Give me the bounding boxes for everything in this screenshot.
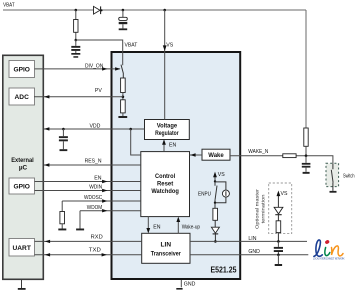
svg-text:Optional master: Optional master <box>255 189 261 229</box>
node top rail C2 <box>122 9 125 12</box>
resistor R4 <box>304 128 308 156</box>
wire PV <box>34 88 123 98</box>
arrow VS termination <box>277 191 288 208</box>
svg-text:WDOSC: WDOSC <box>84 195 102 201</box>
wire GND <box>190 249 308 255</box>
node top rail R1 <box>75 9 78 12</box>
wire node to VBAT pin <box>76 40 123 65</box>
svg-text:WDIN: WDIN <box>89 185 102 191</box>
node C5 GND <box>277 254 280 257</box>
node PV divider <box>122 93 125 100</box>
ground below C2 <box>119 28 128 30</box>
IC E521.25 body <box>112 52 241 279</box>
optional master termination box <box>255 183 292 234</box>
wire VBAT top rail <box>3 9 306 11</box>
svg-text:Watchdog: Watchdog <box>151 188 179 195</box>
wire WAKE_N <box>230 149 333 164</box>
wire Wake to watchdog <box>190 153 203 156</box>
switch ENPU <box>198 181 217 202</box>
LIN transceiver block <box>142 233 190 263</box>
wire WDIN <box>35 185 141 193</box>
LIN logo <box>313 239 345 260</box>
ground below C3 <box>60 149 68 151</box>
capacitor C1 <box>71 40 80 53</box>
svg-text:TXD: TXD <box>89 248 101 254</box>
svg-text:E521.25: E521.25 <box>211 266 238 275</box>
wire VDD <box>44 124 145 131</box>
resistor R1 <box>74 10 78 40</box>
svg-text:WDOM: WDOM <box>87 205 102 211</box>
node diode to LIN <box>214 240 217 243</box>
ground below WDOM <box>76 211 84 231</box>
wire EN regulator to watchdog <box>162 139 176 151</box>
svg-text:LOCAL INTERCONNECT NETWORK: LOCAL INTERCONNECT NETWORK <box>313 257 345 260</box>
external microcontroller block <box>3 55 44 279</box>
wire TXD <box>35 248 142 257</box>
svg-text:External: External <box>11 157 34 164</box>
wire DIV_ON <box>35 63 121 70</box>
ground below microcontroller <box>18 280 26 290</box>
svg-text:LIN: LIN <box>248 236 256 242</box>
svg-text:ENPU: ENPU <box>198 191 211 197</box>
capacitor C3 <box>59 129 68 149</box>
current source parallel branch <box>215 182 229 203</box>
wire RES_N <box>44 158 141 166</box>
svg-text:EN: EN <box>94 175 101 181</box>
svg-text:VDD: VDD <box>89 124 100 130</box>
GPIO box top <box>9 61 35 78</box>
resistor R8 termination <box>276 221 281 242</box>
svg-text:RES_N: RES_N <box>85 158 102 164</box>
wire EN watchdog to transceiver <box>146 217 160 234</box>
svg-text:GND: GND <box>184 281 196 287</box>
wire WDOSC <box>62 195 141 203</box>
resistor R7 <box>213 203 218 228</box>
resistor R5 WDOSC <box>60 201 65 229</box>
ground below IC <box>176 288 182 290</box>
wire VS vertical <box>164 10 166 120</box>
svg-text:Wake: Wake <box>208 152 224 159</box>
ADC box <box>9 88 35 105</box>
node termination to LIN <box>277 240 280 243</box>
resistor R3 divider bottom <box>121 100 126 116</box>
wake block <box>202 149 230 160</box>
svg-text:EN: EN <box>169 143 176 149</box>
svg-text:VBAT: VBAT <box>3 3 15 9</box>
ground below switch <box>330 191 337 193</box>
svg-text:Switch: Switch <box>343 173 355 179</box>
node WAKE_N filter <box>305 154 308 157</box>
wire RXD <box>35 235 142 244</box>
svg-text:Regulator: Regulator <box>155 130 179 137</box>
node VDD branch to watchdog <box>129 128 132 131</box>
node ENPU bottom <box>214 202 216 204</box>
svg-text:Transceiver: Transceiver <box>151 250 181 257</box>
diode D1 <box>94 6 103 14</box>
arrow VS into IC <box>163 45 167 51</box>
diode D3 termination <box>274 207 283 221</box>
voltage regulator block <box>145 120 190 140</box>
svg-text:WAKE_N: WAKE_N <box>248 149 268 155</box>
switch symbol divider inside IC <box>121 65 123 78</box>
resistor R2 divider top <box>121 78 126 93</box>
ground below R5 <box>58 229 66 231</box>
svg-text:Voltage: Voltage <box>157 123 178 130</box>
svg-text:termination: termination <box>260 194 266 223</box>
svg-text:VS: VS <box>281 191 288 197</box>
wire Wake-up transceiver to watchdog <box>176 217 200 234</box>
control reset watchdog block <box>141 152 190 217</box>
pin GND bottom <box>181 280 195 287</box>
svg-text:DIV_ON: DIV_ON <box>85 63 104 69</box>
svg-text:GPIO: GPIO <box>13 184 30 191</box>
svg-text:LIN: LIN <box>161 241 172 248</box>
capacitor C5 LIN to GND <box>274 241 283 254</box>
svg-text:VBAT: VBAT <box>125 42 139 48</box>
wire top rail right corner down <box>305 10 307 128</box>
svg-text:Wake-up: Wake-up <box>182 224 200 230</box>
svg-text:VS: VS <box>166 42 173 48</box>
capacitor C2 polarized <box>119 10 128 28</box>
svg-text:Control: Control <box>155 173 175 180</box>
ground below C4 <box>303 172 310 174</box>
svg-text:VS: VS <box>218 172 225 178</box>
diode D2 <box>211 227 219 241</box>
wire WDOM <box>80 205 141 213</box>
svg-text:RXD: RXD <box>91 235 103 241</box>
UART box <box>9 239 35 257</box>
GPIO box lower <box>9 178 35 194</box>
ground below GND wire <box>275 255 282 266</box>
node ENPU top <box>214 180 216 182</box>
ENPU pull-up arrow VS <box>213 172 225 182</box>
switch box <box>326 163 355 191</box>
node top rail VS branch <box>163 9 166 12</box>
wire EN <box>35 175 141 183</box>
node VBAT divider <box>75 39 78 42</box>
node VDD capacitor <box>62 128 65 131</box>
svg-text:GND: GND <box>248 249 260 255</box>
capacitor C4 <box>302 156 311 172</box>
svg-text:µC: µC <box>19 165 28 172</box>
wire VDD branch to watchdog <box>131 129 141 155</box>
svg-text:UART: UART <box>13 245 31 252</box>
resistor R6 WAKE_N <box>283 154 296 158</box>
ground below divider <box>118 116 127 118</box>
svg-text:PV: PV <box>95 88 102 94</box>
svg-text:EN: EN <box>153 224 160 230</box>
ground below C1 <box>71 53 80 58</box>
svg-text:Reset: Reset <box>157 181 174 188</box>
svg-text:ADC: ADC <box>15 94 30 101</box>
wire LIN <box>190 236 307 242</box>
svg-text:GPIO: GPIO <box>13 66 30 73</box>
